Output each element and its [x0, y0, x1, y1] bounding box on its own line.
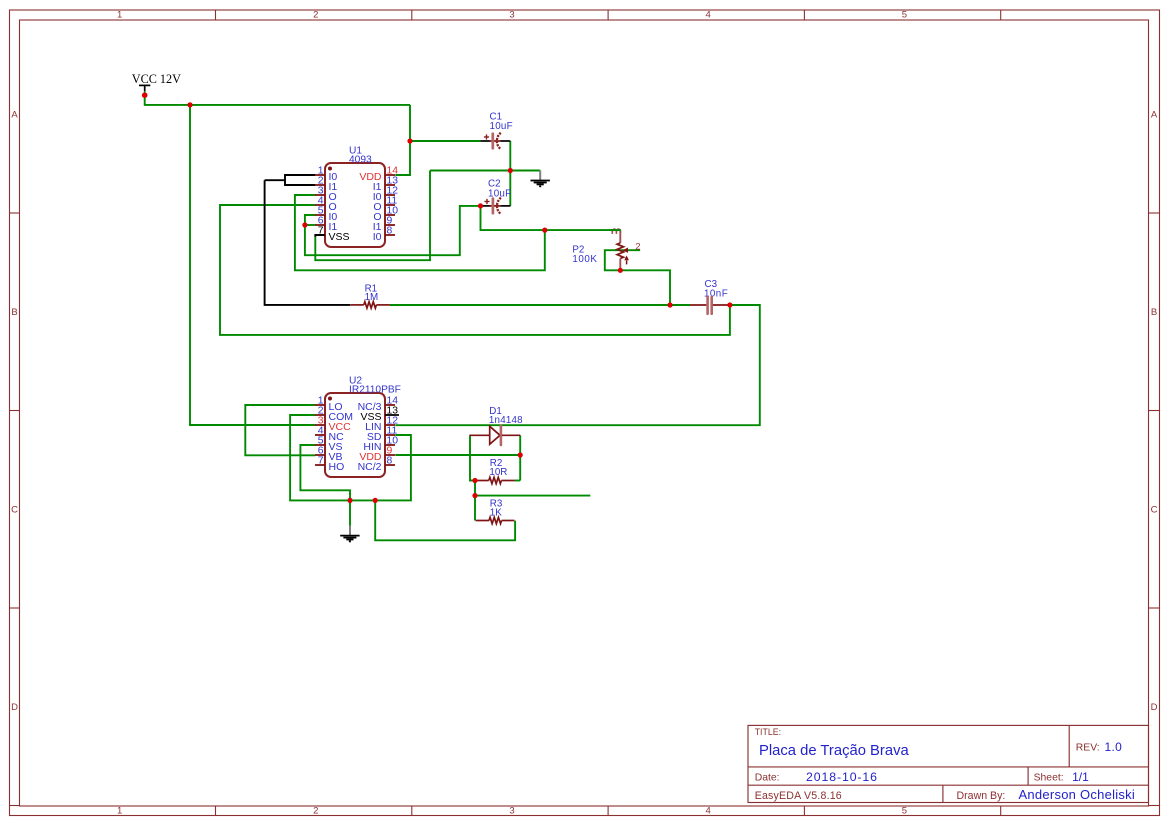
svg-text:HO: HO: [329, 461, 345, 473]
svg-text:2018-10-16: 2018-10-16: [806, 770, 878, 784]
wire R3 bottom return: [375, 500, 515, 540]
svg-text:3: 3: [509, 10, 514, 21]
node D1/R2 left junction: [472, 478, 477, 483]
node C1+ branch: [407, 138, 412, 143]
wire U1 pin3 output loop: [295, 195, 545, 270]
svg-text:2: 2: [635, 241, 640, 252]
wire U1 pin7 VSS black stub: [315, 235, 325, 237]
capacitor C2 right lead: [501, 205, 511, 207]
ic U2 pin 14 (NC/3): [358, 395, 399, 413]
svg-text:TITLE:: TITLE:: [755, 727, 781, 737]
wire U1 pins1-2 loop (black net): [285, 175, 315, 185]
P2 bottom lead: [619, 259, 621, 271]
svg-text:1: 1: [117, 806, 122, 817]
svg-text:7: 7: [318, 455, 324, 466]
svg-text:1K: 1K: [490, 507, 502, 518]
svg-text:B: B: [1151, 307, 1157, 318]
ic U1 pin 8 (I0): [373, 225, 395, 243]
wire VCC net: power rail to U1 VDD: [145, 95, 410, 105]
wire VCC net: down to U1 pin14 VDD: [395, 105, 410, 175]
wire U2 pin2 COM to pin11 SD: [290, 415, 411, 500]
svg-text:2: 2: [313, 10, 318, 21]
svg-text:Date:: Date:: [755, 773, 780, 784]
node C2+ junction: [478, 203, 483, 208]
svg-text:7: 7: [318, 225, 324, 236]
ground GND2 (under U2): [340, 526, 359, 542]
ic U1 4093 body: [325, 163, 385, 247]
capacitor C1 plus sign: [484, 136, 489, 138]
diode D1 1n4148: [470, 406, 524, 445]
wire ground rail drop to GND2: [349, 500, 351, 525]
ic U2 pin 6 (VB): [315, 445, 343, 463]
svg-text:8: 8: [387, 225, 393, 236]
svg-text:D: D: [1151, 702, 1158, 713]
ic U2 pin 13 (VSS): [360, 405, 398, 423]
P2 top curl lead: [612, 229, 620, 234]
capacitor C1 inner lead: [489, 140, 500, 142]
svg-text:4: 4: [706, 10, 711, 21]
ic U1 pin 9 (I1): [373, 215, 395, 233]
wire U1 pin6 stub join: [305, 224, 315, 226]
svg-text:4093: 4093: [349, 155, 372, 166]
capacitor C1 straight plate: [491, 134, 494, 149]
ic U2 pin 9 (VDD): [359, 445, 395, 463]
capacitor C1 10uF electrolytic: [480, 112, 512, 150]
ground GND1 (near C1/C2): [531, 171, 550, 187]
svg-text:Drawn By:: Drawn By:: [957, 790, 1006, 802]
ic U1 pin 11 (O): [373, 195, 397, 213]
ic U1 pin 3 (O): [315, 185, 337, 203]
svg-text:Anderson Ocheliski: Anderson Ocheliski: [1019, 787, 1136, 802]
wire P2 top segment overdraw: [609, 229, 621, 231]
svg-text:1n4148: 1n4148: [489, 415, 523, 426]
ic U2 pin 4 (NC): [315, 425, 344, 443]
ic U2 pin 8 (NC/2): [358, 455, 395, 473]
svg-text:3: 3: [509, 806, 514, 817]
svg-text:1.0: 1.0: [1105, 740, 1123, 754]
svg-text:VSS: VSS: [329, 231, 350, 243]
svg-text:1/1: 1/1: [1072, 770, 1089, 784]
resistor R2 10R: [476, 458, 515, 484]
ic U2 pin13 black stub extension: [395, 414, 399, 416]
ic U1 pin 10 (O): [373, 205, 398, 223]
svg-text:10uF: 10uF: [490, 121, 513, 132]
ic U1 pin 13 (I1): [373, 175, 399, 193]
svg-text:5: 5: [902, 806, 907, 817]
node P2/C3 junction: [667, 302, 672, 307]
node R3 return junction: [373, 498, 378, 503]
node R2/R3 tap junction: [472, 493, 477, 498]
ic U2 IR2110PBF gate driver: [315, 376, 401, 477]
wire D1 cathode down to R2 right: [519, 435, 521, 480]
node VCC / U2 branch: [187, 102, 192, 107]
svg-text:A: A: [1151, 110, 1158, 121]
svg-text:5: 5: [902, 10, 907, 21]
wire R2 left down to R3 left: [474, 481, 476, 521]
wire U2 pin5 VS to ground rail: [300, 445, 350, 500]
ic U2 IR2110PBF body: [325, 393, 385, 477]
power flag VCC 12V: [132, 72, 181, 95]
wire C2 + down to P2 top: [481, 206, 620, 230]
capacitor C1 right lead: [501, 140, 511, 142]
wire C3 right to U2 pin12 LIN: [395, 305, 760, 425]
node GND C1-/C2-: [508, 168, 513, 173]
svg-text:C: C: [11, 505, 18, 516]
wire P2 wiper to bottom terminal: [605, 250, 670, 305]
wire U1 pin5 to C2 +: [305, 206, 481, 255]
wire black net tee: [265, 179, 285, 181]
svg-text:REV:: REV:: [1076, 742, 1100, 753]
svg-text:1: 1: [117, 10, 122, 21]
capacitor C2 left lead: [481, 205, 491, 207]
capacitor C2 inner lead: [490, 205, 501, 207]
node C3 right junction: [727, 302, 732, 307]
wire VCC net: drop to U2 pin3 VCC: [190, 105, 315, 425]
wire U1 pin4 to C3 right / U2 LIN net: [220, 205, 730, 335]
node VCC junction dot: [142, 92, 148, 98]
ic U2 pin 1 (LO): [315, 395, 343, 413]
node VDD/R2 junction: [518, 452, 523, 457]
svg-text:Sheet:: Sheet:: [1034, 773, 1064, 784]
wire GND net: C1 - down: [509, 141, 511, 171]
ic U1 pin 4 (O): [315, 195, 337, 213]
capacitor C1 left lead: [480, 140, 490, 142]
capacitor C2 curved plate: [497, 198, 501, 214]
ic U2 pin 12 (LIN): [365, 415, 398, 433]
svg-text:8: 8: [387, 455, 393, 466]
node ground rail junction: [347, 498, 352, 503]
resistor R3 1K: [476, 499, 515, 524]
node osc feedback junction: [542, 228, 547, 233]
svg-text:C: C: [1151, 505, 1158, 516]
ic U2 pin 11 (SD): [367, 425, 398, 443]
wire GND net: C2 - up: [509, 171, 511, 206]
capacitor C3 10nF: [690, 279, 730, 314]
ic U1 pin 12 (I0): [373, 185, 399, 203]
capacitor C2 10uF electrolytic: [481, 179, 512, 214]
wire GND net: U1 VSS run: [315, 171, 430, 261]
svg-text:I0: I0: [373, 231, 382, 243]
op-amp U1 4093 quad NAND: [315, 146, 398, 247]
svg-text:D: D: [11, 702, 18, 713]
P2 adjust up-arrow: [626, 260, 628, 264]
svg-text:1M: 1M: [365, 292, 379, 303]
svg-text:2: 2: [313, 806, 318, 817]
ic U1 pin 5 (I0): [315, 205, 337, 223]
node U1 pin5/6 junction: [302, 222, 307, 227]
wire U2 pin9 VDD to R2/D1: [395, 454, 520, 456]
P2 wiper arrow: [623, 248, 628, 253]
wire stub node to the right: [475, 495, 590, 497]
svg-text:EasyEDA V5.8.16: EasyEDA V5.8.16: [755, 790, 842, 802]
capacitor C1 curved plate: [497, 133, 501, 149]
wire R1 right to C3 left: [390, 304, 690, 306]
title block: [748, 725, 1149, 802]
svg-text:100K: 100K: [572, 254, 597, 265]
ic U1 pin 6 (I1): [315, 215, 337, 233]
potentiometer P2 100K: [572, 229, 640, 270]
svg-text:IR2110PBF: IR2110PBF: [349, 385, 401, 396]
ic U2 pin 2 (COM): [315, 405, 353, 423]
wire U2 pin1 LO to pin6 VB: [245, 405, 315, 455]
resistor R1 1M: [350, 283, 390, 308]
ic U1 pin 1 (I0): [315, 165, 337, 183]
wire black net down to R1 left: [265, 180, 351, 305]
ic U1 pin 14 (VDD): [359, 165, 398, 183]
ic U2 pin 3 (VCC): [315, 415, 351, 433]
node P2 bottom junction: [618, 268, 623, 273]
ic U2 pin 7 (HO): [315, 455, 344, 473]
ic U1 pin 2 (I1): [315, 175, 337, 193]
svg-text:Placa de Tração Brava: Placa de Tração Brava: [759, 743, 909, 759]
svg-text:4: 4: [706, 806, 711, 817]
ic U2 pin 10 (HIN): [363, 435, 398, 453]
ic U2 pin 5 (VS): [315, 435, 343, 453]
svg-text:NC/2: NC/2: [358, 461, 382, 473]
wire VCC net: branch to C1 +: [410, 140, 480, 142]
svg-text:A: A: [11, 110, 18, 121]
capacitor C2 straight plate: [492, 199, 495, 214]
capacitor C2 plus sign: [484, 201, 489, 203]
P2 vertical zigzag body: [617, 243, 623, 259]
svg-text:B: B: [11, 307, 17, 318]
ic U1 pin 7 (VSS): [315, 225, 350, 243]
wire R2 right join: [515, 480, 520, 482]
wire D1 anode down to R2 left: [470, 435, 475, 480]
svg-text:VCC 12V: VCC 12V: [132, 72, 181, 86]
wire GND net: to ground symbol: [430, 170, 540, 172]
